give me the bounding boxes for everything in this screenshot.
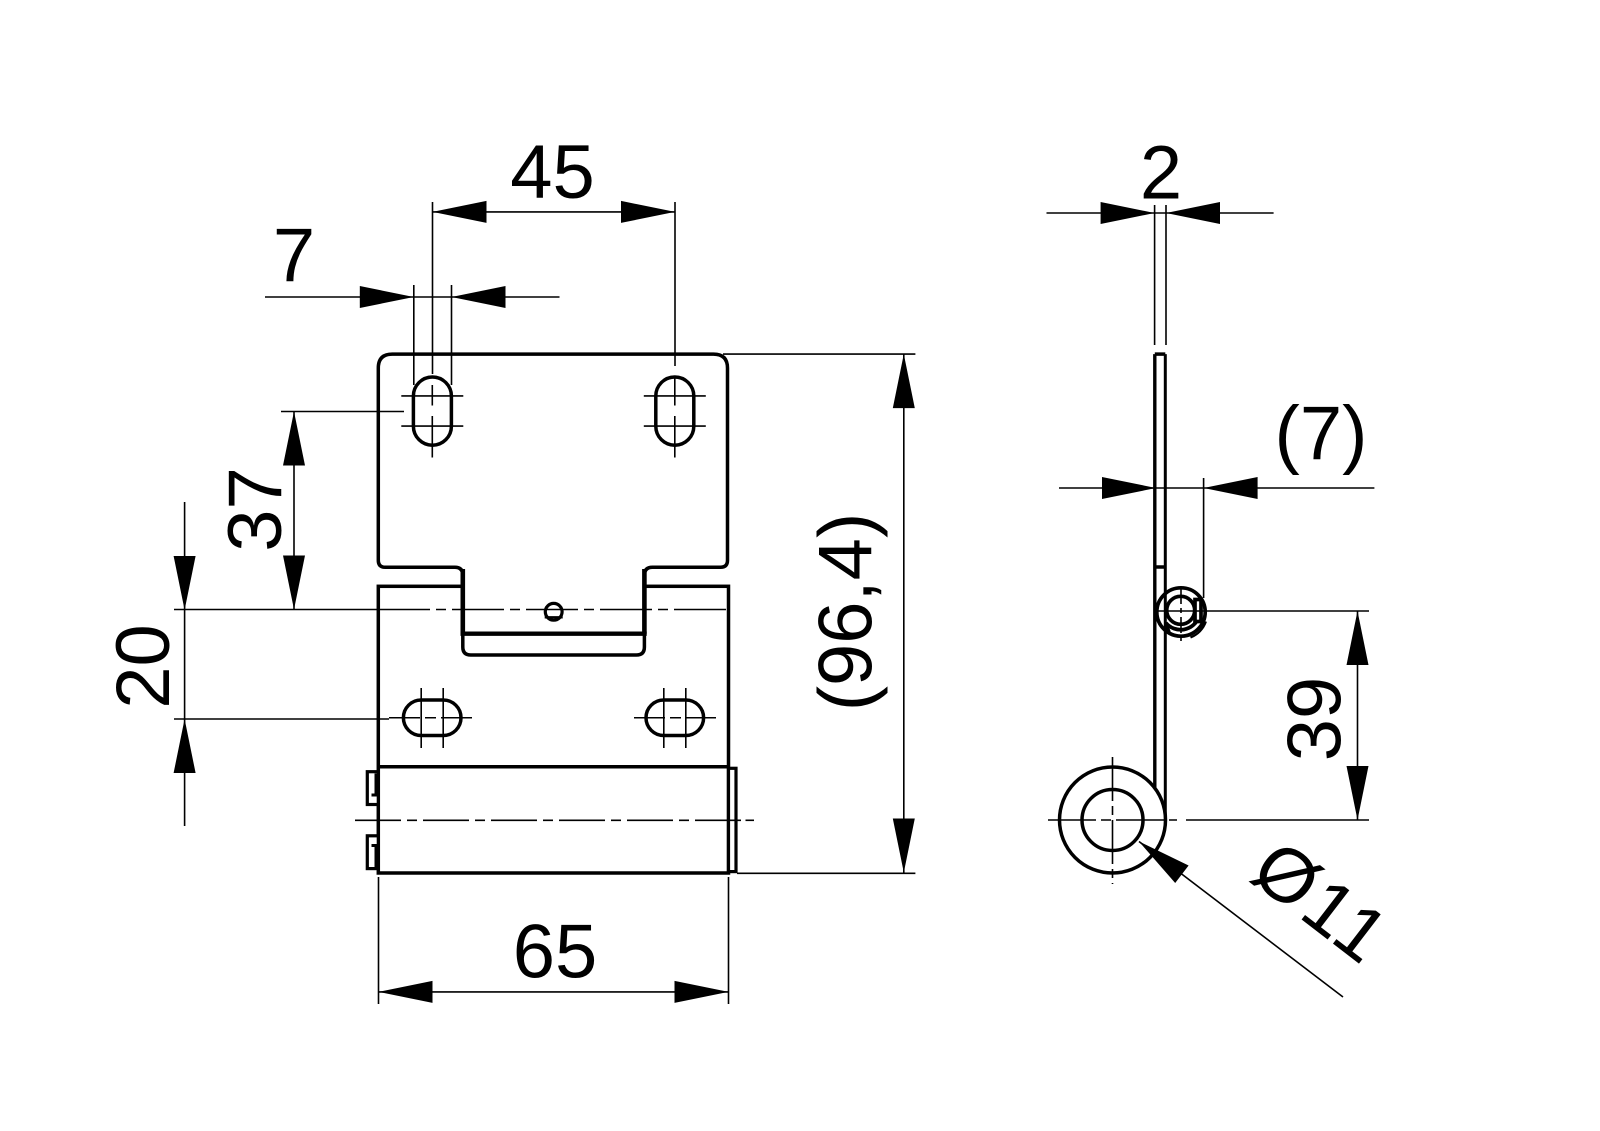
svg-text:7: 7 [273, 213, 315, 298]
svg-text:20: 20 [101, 624, 186, 709]
svg-text:(7): (7) [1275, 391, 1368, 476]
svg-text:39: 39 [1273, 677, 1358, 762]
svg-text:37: 37 [213, 467, 298, 552]
svg-text:(96,4): (96,4) [804, 513, 889, 712]
svg-text:65: 65 [513, 910, 598, 995]
svg-text:2: 2 [1140, 130, 1182, 215]
svg-text:45: 45 [510, 130, 595, 215]
